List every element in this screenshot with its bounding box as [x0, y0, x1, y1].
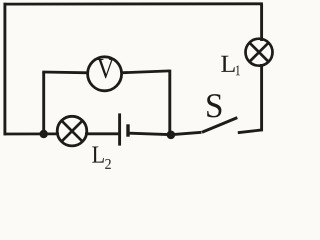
label S	[207, 94, 221, 117]
wire voltmeter branch horizontal right	[121, 71, 170, 73]
battery B1 plate short	[126, 124, 129, 136]
voltmeter V1	[88, 57, 122, 91]
wire voltmeter branch vertical left	[42, 72, 45, 134]
wire junction node 2 to switch pivot	[171, 132, 202, 134]
junction node 2	[167, 131, 176, 140]
wire right vertical upper	[260, 4, 263, 41]
wire voltmeter branch vertical right	[168, 70, 171, 135]
wire voltmeter branch horizontal left	[42, 71, 89, 75]
wire top	[4, 2, 263, 5]
wire bottom	[4, 132, 60, 135]
label L2	[92, 147, 111, 169]
battery B1 plate long	[118, 113, 121, 145]
wire right vertical lower	[260, 64, 263, 131]
switch S1 blade	[202, 118, 237, 133]
label L1	[221, 56, 240, 75]
wire lamp L2 to battery	[85, 132, 119, 135]
lamp L2	[57, 116, 87, 146]
lamp L1	[246, 39, 273, 66]
wire battery to junction node 2	[130, 133, 173, 135]
wire left	[3, 3, 6, 135]
wire switch right contact	[238, 130, 263, 133]
junction node 1	[39, 130, 48, 139]
